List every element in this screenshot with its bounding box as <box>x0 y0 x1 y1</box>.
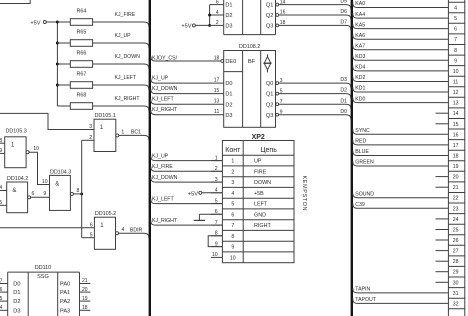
svg-text:R66: R66 <box>76 51 86 57</box>
svg-text:18: 18 <box>453 154 459 160</box>
svg-text:29: 29 <box>453 270 459 276</box>
svg-text:D1: D1 <box>225 3 232 9</box>
svg-text:KA5: KA5 <box>355 22 365 28</box>
svg-text:6: 6 <box>31 191 34 197</box>
svg-text:D5: D5 <box>340 0 347 5</box>
svg-text:3: 3 <box>89 124 92 130</box>
svg-text:LEFT: LEFT <box>254 202 268 208</box>
svg-text:TAPOUT: TAPOUT <box>355 297 376 303</box>
svg-text:16: 16 <box>453 132 459 138</box>
svg-text:13: 13 <box>453 101 459 107</box>
svg-text:D2: D2 <box>225 13 232 19</box>
svg-text:D2: D2 <box>340 88 347 94</box>
svg-text:+5V: +5V <box>181 24 191 30</box>
svg-text:9: 9 <box>43 191 46 197</box>
svg-text:R64: R64 <box>76 9 86 15</box>
svg-text:KJ_DOWN: KJ_DOWN <box>152 86 178 92</box>
svg-text:SYNC: SYNC <box>355 128 370 134</box>
svg-text:D1: D1 <box>340 98 347 104</box>
svg-text:Конт: Конт <box>225 147 241 154</box>
svg-text:KD4: KD4 <box>355 65 365 71</box>
svg-text:27: 27 <box>453 249 459 255</box>
svg-text:30: 30 <box>453 280 459 286</box>
svg-text:Q3: Q3 <box>266 113 273 119</box>
svg-text:GREEN: GREEN <box>355 160 374 166</box>
svg-text:2: 2 <box>89 135 92 141</box>
svg-text:TAPIN: TAPIN <box>355 287 370 293</box>
svg-text:D0: D0 <box>225 81 232 87</box>
svg-text:28: 28 <box>453 259 459 265</box>
svg-text:6: 6 <box>90 222 93 228</box>
svg-text:KJ_UP: KJ_UP <box>115 33 132 39</box>
svg-text:31: 31 <box>453 291 459 297</box>
svg-text:9: 9 <box>0 148 2 154</box>
svg-text:20: 20 <box>453 175 459 181</box>
svg-text:1: 1 <box>231 159 234 165</box>
svg-text:KJ_DOWN: KJ_DOWN <box>152 175 178 181</box>
svg-text:BC1: BC1 <box>131 130 141 136</box>
svg-text:D7: D7 <box>340 20 347 26</box>
svg-text:KJOY_CS/: KJOY_CS/ <box>152 55 178 61</box>
svg-text:15: 15 <box>453 122 459 128</box>
svg-text:DD104.3: DD104.3 <box>50 169 71 175</box>
svg-text:18: 18 <box>82 305 88 311</box>
svg-text:11: 11 <box>214 109 219 115</box>
svg-text:KA4: KA4 <box>355 12 365 18</box>
svg-text:34: 34 <box>0 305 3 311</box>
svg-text:17: 17 <box>453 143 459 149</box>
svg-text:8: 8 <box>231 234 234 240</box>
svg-text:4: 4 <box>231 191 234 197</box>
svg-text:5: 5 <box>0 200 2 206</box>
svg-text:PA0: PA0 <box>60 282 70 288</box>
svg-text:10: 10 <box>453 69 459 75</box>
svg-text:DOWN: DOWN <box>254 180 271 186</box>
svg-text:10: 10 <box>230 255 236 261</box>
svg-text:BF: BF <box>248 59 256 65</box>
svg-text:8: 8 <box>0 138 2 144</box>
svg-text:DD110: DD110 <box>35 265 51 271</box>
svg-text:11: 11 <box>453 80 458 86</box>
svg-text:BDIR: BDIR <box>130 227 143 233</box>
svg-text:+5V: +5V <box>188 191 198 197</box>
svg-text:8: 8 <box>77 188 80 194</box>
svg-text:4: 4 <box>454 6 457 12</box>
svg-text:9: 9 <box>231 245 234 251</box>
svg-text:KJ_UP: KJ_UP <box>152 76 169 82</box>
svg-text:5: 5 <box>231 202 234 208</box>
svg-text:D1: D1 <box>13 290 20 296</box>
svg-text:KJ_FIRE: KJ_FIRE <box>152 164 173 170</box>
svg-text:21: 21 <box>82 278 88 284</box>
svg-text:13: 13 <box>214 99 220 105</box>
svg-text:Q2: Q2 <box>266 102 273 108</box>
svg-text:6: 6 <box>231 212 234 218</box>
svg-text:Q3: Q3 <box>266 24 273 30</box>
svg-text:18: 18 <box>214 55 220 61</box>
svg-text:8: 8 <box>454 48 457 54</box>
svg-text:5: 5 <box>90 232 93 238</box>
svg-text:7: 7 <box>231 223 234 229</box>
svg-text:DD104.2: DD104.2 <box>7 176 28 182</box>
svg-text:12: 12 <box>453 90 459 96</box>
svg-text:KJ_LEFT: KJ_LEFT <box>152 97 174 103</box>
svg-text:PA3: PA3 <box>60 308 70 314</box>
svg-text:DD105.2: DD105.2 <box>95 211 116 217</box>
svg-text:SOUND: SOUND <box>355 191 374 197</box>
svg-text:35: 35 <box>0 296 3 302</box>
svg-text:KJ_DOWN: KJ_DOWN <box>115 54 141 60</box>
svg-text:&: & <box>12 188 16 194</box>
svg-text:7: 7 <box>454 37 457 43</box>
svg-text:KEMPSTON: KEMPSTON <box>301 176 307 212</box>
svg-text:KJ_RIGHT: KJ_RIGHT <box>115 96 141 102</box>
svg-text:KD0: KD0 <box>355 96 365 102</box>
svg-text:SSG: SSG <box>37 274 49 280</box>
svg-text:D3: D3 <box>225 113 232 119</box>
svg-text:R67: R67 <box>76 72 86 78</box>
svg-text:KA6: KA6 <box>355 33 365 39</box>
svg-text:Q1: Q1 <box>266 3 273 9</box>
svg-text:D0: D0 <box>340 109 347 115</box>
svg-text:DD105.1: DD105.1 <box>95 113 116 119</box>
svg-text:PA2: PA2 <box>60 299 70 305</box>
svg-text:24: 24 <box>453 217 459 223</box>
svg-text:26: 26 <box>453 238 459 244</box>
svg-text:RED: RED <box>355 139 366 145</box>
svg-text:10: 10 <box>33 146 39 152</box>
svg-text:GND: GND <box>254 212 266 218</box>
svg-text:10: 10 <box>212 252 218 258</box>
svg-text:KD3: KD3 <box>355 54 365 60</box>
svg-text:DD108.2: DD108.2 <box>239 44 260 50</box>
svg-text:15: 15 <box>214 88 220 94</box>
svg-text:D3: D3 <box>225 24 232 30</box>
svg-text:37: 37 <box>0 278 3 284</box>
svg-text:KJ_LEFT: KJ_LEFT <box>115 75 137 81</box>
svg-text:UP: UP <box>254 159 262 165</box>
svg-text:KJ_RIGHT: KJ_RIGHT <box>152 107 178 113</box>
svg-text:14: 14 <box>453 111 459 117</box>
svg-text:32: 32 <box>453 301 459 307</box>
svg-text:4: 4 <box>0 185 2 191</box>
svg-text:KJ_FIRE: KJ_FIRE <box>115 12 136 18</box>
svg-text:KJ_UP: KJ_UP <box>152 153 169 159</box>
svg-text:D1: D1 <box>225 92 232 98</box>
svg-text:PA1: PA1 <box>60 290 70 296</box>
svg-text:FIRE: FIRE <box>254 169 267 175</box>
svg-text:D0: D0 <box>13 282 20 288</box>
svg-text:BLUE: BLUE <box>355 149 369 155</box>
svg-text:&: & <box>55 181 59 187</box>
svg-text:2: 2 <box>231 169 234 175</box>
svg-text:9: 9 <box>454 58 457 64</box>
svg-text:KA7: KA7 <box>355 44 365 50</box>
svg-text:+5V: +5V <box>30 20 40 26</box>
svg-text:36: 36 <box>0 287 3 293</box>
svg-text:19: 19 <box>82 296 88 302</box>
svg-text:+5B: +5B <box>254 191 264 197</box>
svg-text:D3: D3 <box>340 77 347 83</box>
svg-text:Q0: Q0 <box>266 81 273 87</box>
svg-text:10: 10 <box>42 179 48 185</box>
svg-text:1: 1 <box>121 129 124 135</box>
svg-text:KJ_RIGHT: KJ_RIGHT <box>152 218 178 224</box>
svg-text:D2: D2 <box>225 102 232 108</box>
svg-text:XP2: XP2 <box>252 134 265 141</box>
svg-text:KD2: KD2 <box>355 75 365 81</box>
svg-text:4: 4 <box>122 227 125 233</box>
svg-text:20: 20 <box>82 287 88 293</box>
svg-text:R65: R65 <box>76 30 86 36</box>
svg-text:KA0: KA0 <box>355 1 365 7</box>
svg-text:6: 6 <box>454 27 457 33</box>
svg-text:DE0: DE0 <box>225 59 236 65</box>
svg-text:22: 22 <box>453 196 459 202</box>
svg-text:D6: D6 <box>340 9 347 15</box>
svg-text:D3: D3 <box>13 308 20 314</box>
svg-text:17: 17 <box>214 78 220 84</box>
svg-text:3: 3 <box>231 180 234 186</box>
svg-text:23: 23 <box>453 206 459 212</box>
svg-text:D2: D2 <box>13 299 20 305</box>
svg-text:19: 19 <box>453 164 459 170</box>
svg-text:5: 5 <box>454 16 457 22</box>
svg-text:Цепь: Цепь <box>260 147 277 154</box>
svg-text:Q1: Q1 <box>266 92 273 98</box>
svg-text:KJ_LEFT: KJ_LEFT <box>152 196 174 202</box>
svg-text:21: 21 <box>453 185 459 191</box>
svg-text:25: 25 <box>453 228 459 234</box>
svg-text:DD105.3: DD105.3 <box>6 128 27 134</box>
svg-text:RIGHT: RIGHT <box>254 223 271 229</box>
svg-text:R68: R68 <box>76 93 86 99</box>
svg-text:Q2: Q2 <box>266 13 273 19</box>
svg-text:KD1: KD1 <box>355 86 365 92</box>
svg-text:C39: C39 <box>355 202 365 208</box>
